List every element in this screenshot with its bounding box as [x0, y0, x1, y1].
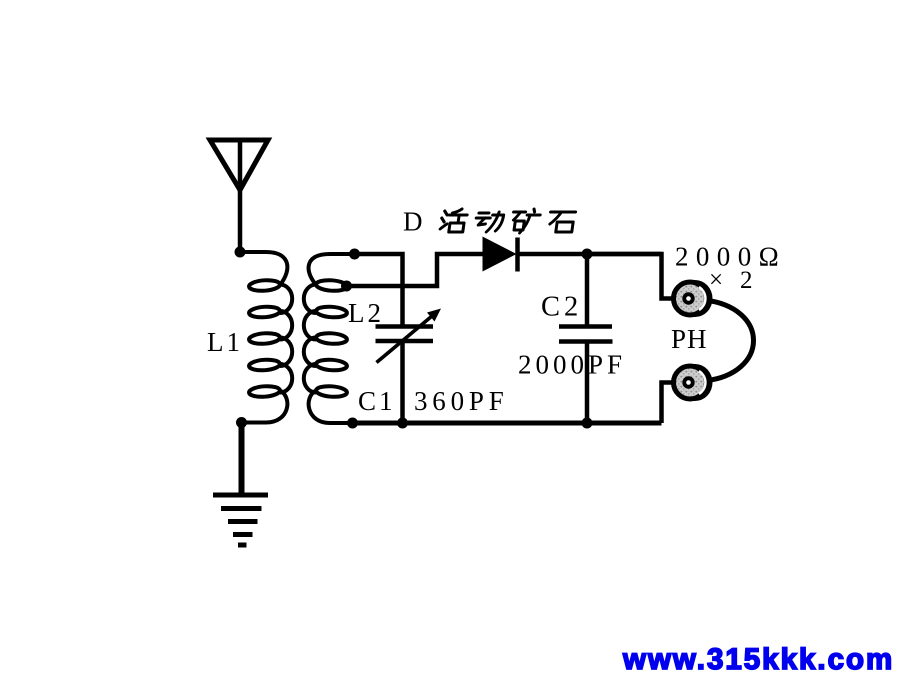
wire diode to right rail	[518, 252, 662, 257]
node L2 top junction	[349, 249, 360, 260]
wire right rail top	[587, 254, 673, 299]
svg-text:2: 2	[740, 267, 753, 294]
ground	[213, 495, 268, 545]
node antenna/L1 junction	[235, 247, 246, 258]
svg-text:L2: L2	[348, 298, 384, 328]
wire C2 top lead	[585, 254, 590, 325]
antenna	[210, 140, 268, 252]
diode D	[483, 237, 518, 272]
svg-text:2000PF: 2000PF	[518, 350, 626, 380]
node L2 bottom junction	[347, 418, 358, 429]
node L1 bottom junction	[236, 417, 247, 428]
inductor L2	[304, 254, 355, 423]
wire C2 bottom lead	[585, 342, 590, 424]
wire L2 tap to diode	[347, 254, 483, 286]
svg-text:360PF: 360PF	[414, 386, 509, 416]
headphone earpiece bottom	[674, 364, 713, 401]
node C1 bottom junction	[397, 418, 408, 429]
wire L2 top to C1	[355, 254, 403, 325]
svg-text:L1: L1	[207, 327, 243, 357]
wire L1 to ground	[239, 423, 245, 495]
headphone earpiece top	[674, 280, 713, 317]
inductor L1	[240, 252, 292, 423]
capacitor C1 (variable)	[376, 309, 442, 424]
svg-text:C1: C1	[358, 386, 396, 416]
svg-text:www.315kkk.com: www.315kkk.com	[622, 643, 894, 675]
svg-text:D: D	[403, 207, 423, 237]
wire right rail bottom	[662, 383, 674, 424]
headphone headband	[704, 300, 754, 381]
svg-text:2000Ω: 2000Ω	[675, 242, 786, 272]
node L2 tap junction	[341, 281, 352, 292]
capacitor C2	[559, 327, 613, 342]
svg-text:PH: PH	[671, 324, 708, 354]
label 活动矿石 (hand-drawn)	[440, 209, 576, 233]
svg-text:C2: C2	[541, 292, 582, 323]
svg-text:×: ×	[709, 267, 723, 294]
node C2 bottom junction	[582, 418, 593, 429]
wire bottom rail	[353, 421, 662, 426]
node C2 top junction	[582, 249, 593, 260]
